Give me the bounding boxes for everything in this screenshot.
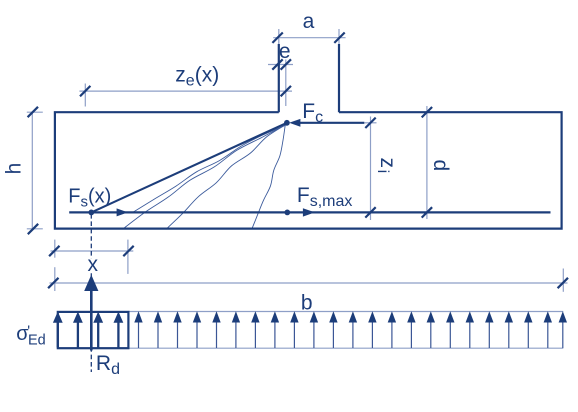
svg-text:ze(x): ze(x) xyxy=(175,64,219,90)
svg-text:d: d xyxy=(429,160,452,172)
svg-text:e: e xyxy=(279,40,291,63)
svg-text:b: b xyxy=(301,291,313,314)
svg-text:x: x xyxy=(88,253,99,276)
svg-text:Fs(x): Fs(x) xyxy=(68,186,111,211)
svg-text:h: h xyxy=(2,163,25,175)
svg-text:Ed: Ed xyxy=(28,332,46,348)
svg-text:a: a xyxy=(303,10,315,33)
